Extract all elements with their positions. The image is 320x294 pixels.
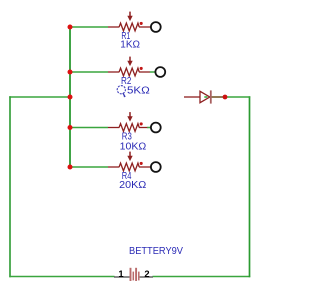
marker tail xyxy=(123,93,125,96)
terminal circle R2 xyxy=(155,67,165,77)
junction dot R1 xyxy=(68,25,73,30)
terminal circle R4 xyxy=(151,162,161,172)
battery BT1 lead 1 xyxy=(114,276,130,278)
svg-text:20KΩ: 20KΩ xyxy=(119,180,147,191)
wire R3 branch xyxy=(69,127,108,129)
battery plate short 1 xyxy=(132,272,134,281)
svg-text:10KΩ: 10KΩ xyxy=(120,142,147,153)
terminal circle R1 xyxy=(151,22,161,32)
resistor R3 xyxy=(108,112,147,131)
wire bottom right xyxy=(153,276,251,278)
svg-text:BETTERY9V: BETTERY9V xyxy=(129,246,184,257)
pin dot R3 xyxy=(140,122,143,125)
wire left vertical xyxy=(9,96,11,277)
wire R2 branch xyxy=(69,71,108,73)
battery plate short 2 xyxy=(138,272,140,281)
wire bottom left xyxy=(9,276,114,278)
wire left horizontal xyxy=(9,96,71,98)
battery BT1 lead 2 xyxy=(140,276,153,278)
battery plate tall 1 xyxy=(130,268,132,281)
diode D1 xyxy=(184,91,210,102)
svg-text:5KΩ: 5KΩ xyxy=(127,85,150,96)
pin dot R4 xyxy=(140,162,143,165)
wire R4 branch xyxy=(69,166,108,168)
junction dot R3 xyxy=(68,125,73,130)
wire bus vertical xyxy=(69,26,71,167)
resistor R4 xyxy=(108,152,151,171)
svg-text:2: 2 xyxy=(144,268,149,279)
pin dot R2 xyxy=(140,67,143,70)
junction dot left branch xyxy=(68,95,73,100)
terminal circle R3 xyxy=(151,123,161,133)
marker dashed circle xyxy=(117,86,125,94)
wire stub R3 pin xyxy=(147,127,151,129)
svg-text:1KΩ: 1KΩ xyxy=(120,40,140,51)
wire R1 branch xyxy=(69,26,108,28)
pin dot R1 xyxy=(140,22,143,25)
junction dot R4 xyxy=(68,165,73,170)
resistor R2 xyxy=(108,57,150,76)
resistor R1 xyxy=(108,12,151,31)
diode cathode bar xyxy=(210,90,212,103)
svg-text:1: 1 xyxy=(118,268,123,279)
junction dot diode xyxy=(223,95,228,100)
wire stub diode xyxy=(204,96,207,98)
wire right vertical xyxy=(249,96,251,277)
wire top right horizontal xyxy=(225,96,250,98)
junction dot R2 xyxy=(68,70,73,75)
diode lead overlap xyxy=(212,96,224,98)
battery plate tall 2 xyxy=(135,268,137,281)
wire stub R2 pin xyxy=(150,71,156,73)
